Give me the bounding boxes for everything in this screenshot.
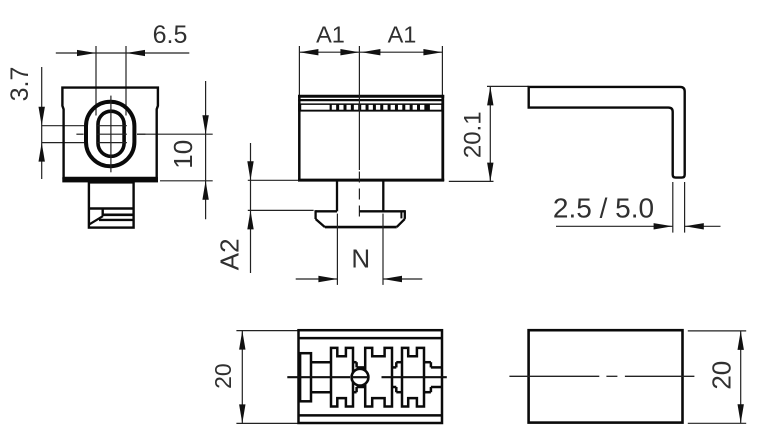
knurl band cutouts <box>301 105 441 110</box>
dimension 6.5 arrowheads <box>77 50 145 56</box>
horizontal centerline <box>287 376 447 378</box>
thread hole inner obround <box>98 111 124 156</box>
vertical centerline <box>110 96 112 173</box>
leaf spring L-profile <box>529 87 685 178</box>
dimension 20 right lines <box>688 331 746 423</box>
svg-text:20: 20 <box>707 361 737 390</box>
center circle <box>352 369 369 386</box>
knurl neck 2 <box>353 362 365 392</box>
svg-text:10: 10 <box>168 140 198 169</box>
knurl neck 1 <box>311 362 331 392</box>
dimension 10 arrowheads <box>202 115 208 200</box>
dimension 20.1 arrowheads <box>487 86 493 181</box>
dimension 20 left arrowheads <box>239 331 245 424</box>
dimension 6.5 line <box>56 46 190 116</box>
dimension 2.5/5.0 extension lines <box>673 182 685 233</box>
vertical centerline dashed part <box>358 172 360 223</box>
dimension 3.7 line <box>42 67 84 179</box>
svg-text:3.7: 3.7 <box>6 67 34 102</box>
dimension N arrowheads <box>318 276 402 282</box>
front view foot <box>89 182 134 227</box>
dimension 20 left lines <box>236 331 297 424</box>
dimension 20.1 line <box>449 86 529 181</box>
thread boss outer obround <box>86 102 134 166</box>
svg-text:6.5: 6.5 <box>153 21 188 49</box>
knurl neck 3 <box>392 362 402 392</box>
vertical centerline <box>358 46 360 170</box>
knurl cluster 2 <box>365 348 392 407</box>
svg-text:A1: A1 <box>388 22 417 48</box>
dimension 3.7 arrowheads <box>39 107 45 162</box>
dimension A2 line <box>248 143 314 273</box>
svg-text:20.1: 20.1 <box>459 111 486 158</box>
knurl cluster 1 <box>331 348 353 407</box>
dimension N extension lines <box>337 214 383 285</box>
dimension A1 lines <box>299 46 442 95</box>
svg-text:2.5 / 5.0: 2.5 / 5.0 <box>553 193 654 224</box>
stem lines <box>337 181 383 211</box>
body block bottom flange <box>62 177 158 182</box>
horizontal centerline ticks <box>76 133 145 135</box>
dimension 20 right arrowheads <box>738 331 744 423</box>
dimension N line <box>296 278 423 280</box>
dimension 10 line <box>137 81 213 219</box>
top view inner edge lines <box>300 338 442 415</box>
top view outer rectangle <box>299 330 443 423</box>
foot chamfer line <box>99 219 134 221</box>
thread lines <box>97 126 127 143</box>
svg-text:N: N <box>351 244 370 274</box>
svg-text:20: 20 <box>210 363 236 389</box>
side body rectangle <box>529 330 683 422</box>
side view block edges <box>298 95 444 181</box>
dimension A2 arrowheads <box>247 161 253 229</box>
svg-text:A1: A1 <box>316 22 345 48</box>
knurl cluster 3 <box>402 348 424 407</box>
knurl neck 4 <box>424 362 441 392</box>
T-foot lip line <box>400 212 402 218</box>
dimension A1 arrowheads <box>299 49 442 55</box>
dimension 2.5/5.0 line <box>556 225 721 227</box>
front view body block <box>62 88 157 178</box>
T-foot outline <box>316 210 405 227</box>
foot inner lines <box>89 209 134 225</box>
svg-text:A2: A2 <box>215 238 245 270</box>
knurl band <box>298 103 444 111</box>
dimension 2.5/5.0 arrowheads <box>654 223 704 229</box>
horizontal centerline <box>509 375 694 377</box>
knurl left pad <box>300 353 311 401</box>
